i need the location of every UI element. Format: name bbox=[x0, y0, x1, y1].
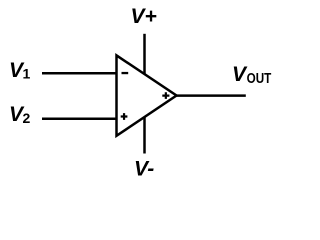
wire output bbox=[176, 94, 246, 97]
plus sign (output polarity marker) bbox=[162, 92, 169, 99]
plus sign (non-inverting input marker) bbox=[121, 113, 128, 120]
svg-text:V-: V- bbox=[134, 157, 154, 180]
svg-text:V: V bbox=[232, 63, 248, 86]
svg-text:2: 2 bbox=[23, 110, 31, 126]
svg-text:V+: V+ bbox=[131, 5, 157, 28]
op-amp U1 triangle bbox=[117, 55, 177, 135]
minus sign (inverting input marker) bbox=[122, 72, 129, 74]
wire input V2 (non-inverting) bbox=[42, 118, 116, 121]
svg-text:OUT: OUT bbox=[247, 70, 272, 87]
svg-text:1: 1 bbox=[23, 66, 31, 82]
wire V- supply bbox=[143, 117, 146, 154]
wire V+ supply bbox=[143, 34, 146, 75]
wire input V1 (inverting) bbox=[42, 72, 116, 75]
